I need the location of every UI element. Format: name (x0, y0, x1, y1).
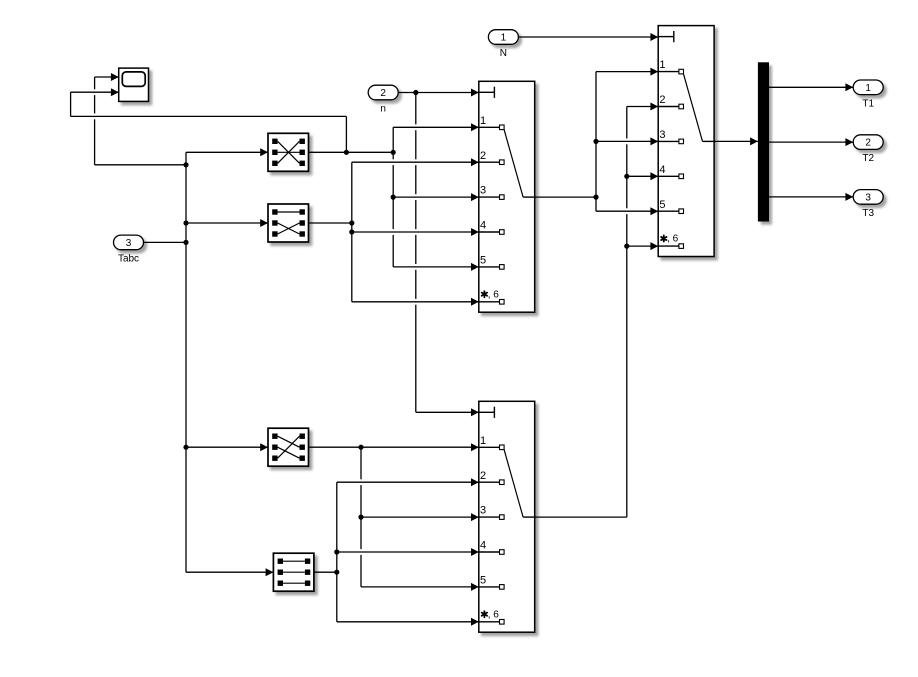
svg-text:, 6: , 6 (488, 289, 500, 300)
multiport switch SW3 (479, 401, 535, 632)
port Out3 T3 (853, 190, 883, 219)
wire N to SW2 control (518, 33, 658, 41)
junction bus/S2 input (183, 220, 188, 225)
svg-text:1: 1 (865, 83, 871, 94)
junction S1-out/feedback (344, 150, 349, 155)
wire n to SW3 control (416, 408, 479, 416)
wire net-C vertical (SW1 out to SW2 ports 1,3,5) (595, 72, 597, 212)
junction net-F/SW3 port4 (334, 549, 339, 554)
junction SW1-out/net-C (593, 195, 598, 200)
multiport switch SW1 (479, 81, 535, 312)
wire n to SW1 control (398, 89, 479, 97)
svg-text:5: 5 (480, 575, 486, 587)
wire n control vertical (415, 93, 417, 413)
wire net-E to SW3 port3 (361, 513, 479, 521)
wire net-D to SW2 port4 (627, 172, 658, 180)
svg-text:2: 2 (659, 94, 665, 106)
svg-text:5: 5 (659, 199, 665, 211)
junction net-B/SW1 port4 (349, 229, 354, 234)
svg-text:N: N (500, 48, 507, 59)
wire S3 out to SW3 port1 (309, 443, 479, 451)
wire net-B to SW1 port6 (352, 298, 479, 306)
svg-text:, 6: , 6 (667, 234, 679, 245)
selector S1 (268, 133, 309, 171)
wire bus to selector S3 (186, 443, 268, 451)
svg-text:3: 3 (480, 185, 486, 197)
port In3 Tabc (114, 235, 144, 264)
svg-text:n: n (380, 104, 386, 115)
junction bus/S3 input (183, 445, 188, 450)
wire net-A to SW1 port5 (393, 263, 479, 271)
junction S2-out/net-B (349, 220, 354, 225)
wire net-B vertical (S2 out to SW1 ports 2,4,6) (351, 162, 353, 302)
multiport switch SW2 (658, 26, 714, 257)
wire Tabc to bus (144, 241, 187, 243)
wire feedback right vertical (345, 116, 347, 152)
svg-text:3: 3 (865, 193, 871, 204)
junction net-D/SW2 port4 (624, 174, 629, 179)
wire net-B to SW1 port4 (352, 228, 479, 236)
wire demux to T3 (769, 193, 853, 201)
svg-text:1: 1 (501, 33, 507, 44)
svg-text:Tabc: Tabc (118, 253, 139, 264)
junction bus/scope branch (183, 162, 188, 167)
junction S3-out/net-E (358, 445, 363, 450)
wire S1 out (309, 151, 394, 153)
wire SW2 out to demux (714, 137, 758, 145)
wire S4 out to net-F (314, 571, 337, 573)
wire net-C to SW2 port3 (596, 137, 658, 145)
wire bus branch to scope input 1 (95, 73, 186, 165)
junction net-E/SW3 port3 (358, 515, 363, 520)
svg-text:T2: T2 (862, 153, 874, 164)
svg-text:2: 2 (480, 150, 486, 162)
wire net-F to SW3 port4 (337, 548, 479, 556)
wire bus to selector S2 (186, 219, 268, 227)
selector S2 (268, 204, 309, 242)
svg-text:T1: T1 (862, 98, 874, 109)
svg-text:1: 1 (659, 59, 665, 71)
junction bus/Tabc input (183, 240, 188, 245)
wire net-E vertical (S3 out to SW3 ports 1,3,5) (360, 447, 362, 587)
wire feedback to scope input 2 (71, 88, 347, 116)
wire demux to T1 (769, 83, 853, 91)
wire scope branch vertical (94, 77, 96, 165)
svg-text:4: 4 (480, 220, 486, 232)
wire net-A to SW1 port3 (393, 193, 479, 201)
junction net-C/SW2 port3 (593, 139, 598, 144)
port Out1 T1 (853, 80, 883, 109)
wire bus to selector S4 (186, 568, 273, 576)
svg-text:2: 2 (480, 470, 486, 482)
wire net-D vertical (SW3 out to SW2 ports 2,4,6) (626, 107, 628, 518)
svg-text:1: 1 (480, 115, 486, 127)
svg-text:5: 5 (480, 255, 486, 267)
svg-text:1: 1 (480, 435, 486, 447)
selector S3 (268, 428, 309, 466)
svg-text:2: 2 (380, 88, 386, 99)
wire demux to T2 (769, 138, 853, 146)
wire bus to selector S1 (186, 148, 268, 156)
wire crossing gaps (93, 89, 628, 555)
svg-text:2: 2 (865, 138, 871, 149)
wire net-D to SW2 port2 (627, 103, 658, 111)
wire SW3 out to net-D (535, 516, 627, 518)
wire feedback left vertical (70, 92, 72, 116)
junction n/control branch (413, 90, 418, 95)
junction net-D/SW2 port6 (624, 244, 629, 249)
wire net-A vertical (S1 out to SW1 ports 1,3,5) (392, 127, 394, 267)
svg-text:T3: T3 (862, 208, 874, 219)
junction S4-out/net-F (334, 570, 339, 575)
svg-text:, 6: , 6 (488, 609, 500, 620)
wire net-F to SW3 port6 (337, 618, 479, 626)
wire net-D to SW2 port6 (627, 242, 658, 250)
port Out2 T2 (853, 135, 883, 164)
svg-text:3: 3 (659, 129, 665, 141)
scope block (119, 68, 149, 101)
svg-text:4: 4 (480, 540, 486, 552)
wire net-F vertical (S4 out to SW3 ports 2,4,6) (336, 482, 338, 622)
wire net-B to SW1 port2 (352, 158, 479, 166)
wire net-F to SW3 port2 (337, 478, 479, 486)
port In1 N (488, 30, 518, 59)
junction net-A/SW1 port3 (391, 195, 396, 200)
junction S1-out/net-A (391, 150, 396, 155)
port In2 n (368, 85, 398, 114)
selector S4 (273, 553, 314, 591)
wire net-C to SW2 port1 (596, 68, 658, 76)
wire net-E to SW3 port5 (361, 583, 479, 591)
demux bar (758, 62, 769, 221)
wire Tabc bus vertical (185, 152, 187, 572)
svg-text:3: 3 (480, 505, 486, 517)
wire net-C to SW2 port5 (596, 207, 658, 215)
svg-text:4: 4 (659, 164, 665, 176)
wire S2 out (309, 222, 352, 224)
wire net-A to SW1 port1 (393, 123, 479, 131)
svg-text:3: 3 (126, 238, 132, 249)
wire SW1 out to net-C (535, 196, 596, 198)
